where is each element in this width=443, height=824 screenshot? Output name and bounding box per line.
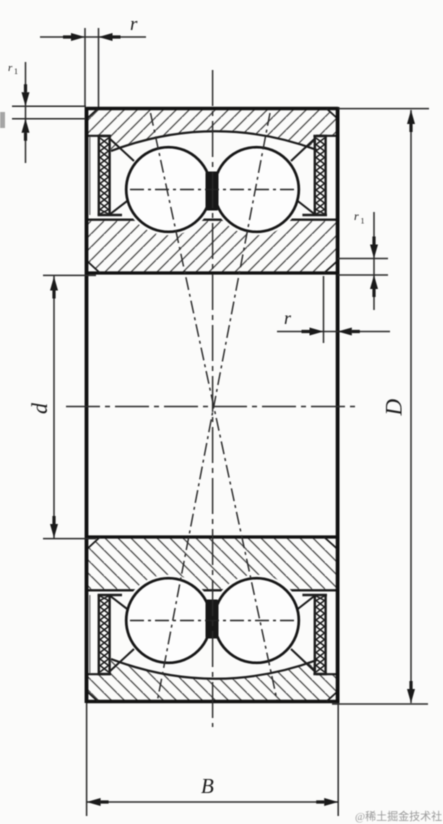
- svg-text:1: 1: [361, 217, 365, 226]
- svg-text:B: B: [201, 774, 214, 798]
- svg-text:d: d: [27, 402, 52, 414]
- svg-text:r: r: [284, 308, 292, 328]
- svg-text:r: r: [130, 14, 138, 35]
- svg-text:r: r: [354, 209, 359, 223]
- svg-text:1: 1: [14, 67, 18, 76]
- svg-text:@稀土掘金技术社区: @稀土掘金技术社区: [355, 809, 443, 823]
- svg-text:r: r: [8, 62, 13, 74]
- svg-text:D: D: [382, 399, 407, 417]
